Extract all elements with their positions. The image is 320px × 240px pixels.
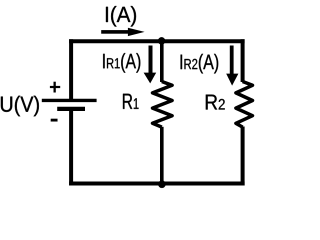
battery negative plate (57, 107, 85, 111)
label U(V) (1, 96, 39, 116)
label R2 (206, 95, 225, 110)
current arrow IR2 (226, 46, 238, 86)
node bottom junction (158, 181, 165, 188)
wire bottom (69, 182, 245, 186)
label IR1(A) (103, 53, 140, 73)
current arrow IR1 (144, 46, 157, 84)
label R1 (123, 94, 139, 109)
battery plus sign (50, 82, 60, 93)
wire top (69, 39, 245, 43)
wire left lower (69, 109, 73, 186)
wire R1 branch upper (160, 39, 164, 82)
node top junction (158, 37, 165, 44)
battery minus sign (51, 119, 58, 122)
wire right upper (241, 39, 245, 82)
label IR2(A) (181, 54, 219, 74)
resistor R2 (236, 82, 253, 128)
battery positive plate (42, 99, 97, 102)
current arrow I (101, 28, 144, 36)
label I(A) (106, 6, 136, 26)
wire right lower (241, 127, 245, 186)
wire R1 branch lower (160, 127, 164, 186)
wire left upper (69, 39, 73, 100)
resistor R1 (153, 82, 173, 128)
